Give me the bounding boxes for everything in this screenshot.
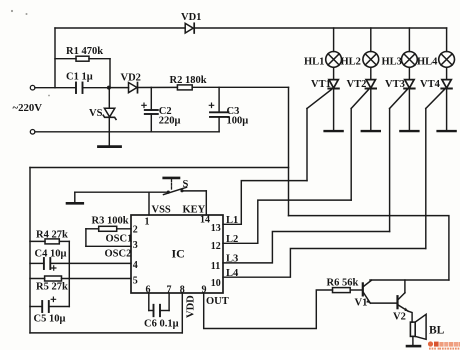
svg-text:HL3: HL3 — [382, 57, 402, 68]
svg-text:C5 10μ: C5 10μ — [34, 314, 66, 325]
label C3 plus — [209, 103, 213, 107]
svg-text:IC: IC — [172, 247, 185, 261]
svg-text:VD2: VD2 — [121, 73, 141, 84]
lamp HL1 — [326, 28, 342, 67]
switch S — [164, 178, 207, 195]
capacitor C2 — [145, 87, 158, 131]
lamp HL3 — [402, 28, 418, 67]
svg-text:R4 27k: R4 27k — [36, 230, 68, 241]
svg-text:S: S — [183, 179, 189, 190]
capacitor C4 — [30, 258, 131, 269]
speck dust — [11, 10, 50, 97]
svg-text:VS: VS — [89, 108, 103, 119]
svg-text:R3 100k: R3 100k — [92, 216, 129, 227]
svg-text:R6 56k: R6 56k — [327, 278, 359, 289]
wire L2 net — [223, 200, 351, 243]
wire collector rail — [370, 279, 449, 281]
diode VD1 — [185, 23, 194, 33]
capacitor C5 — [30, 301, 69, 312]
watermark red — [428, 341, 460, 349]
svg-text:VT4: VT4 — [420, 79, 441, 90]
svg-text:HL4: HL4 — [417, 57, 438, 68]
speaker BL — [407, 314, 426, 346]
svg-text:OUT: OUT — [206, 296, 229, 307]
svg-text:V2: V2 — [393, 312, 406, 323]
svg-text:C1 1μ: C1 1μ — [66, 72, 93, 83]
wire neutral bottom — [35, 131, 219, 133]
wire VSS riser pin1 — [148, 192, 150, 215]
svg-text:C4 10μ: C4 10μ — [35, 249, 67, 260]
wire VDD feed horizontal — [30, 167, 289, 169]
svg-text:14: 14 — [200, 215, 210, 226]
terminal upper input — [30, 85, 35, 90]
svg-text:V1: V1 — [355, 298, 368, 309]
svg-text:VT1: VT1 — [311, 79, 331, 90]
label C2 plus — [142, 103, 146, 107]
wire L4 net — [223, 249, 426, 278]
svg-text:6: 6 — [146, 285, 151, 296]
svg-text:11: 11 — [211, 261, 220, 272]
label C4 plus — [52, 266, 56, 270]
wire left border — [29, 168, 31, 333]
svg-text:OSC1: OSC1 — [106, 234, 133, 245]
wire gate riser VT3 — [389, 109, 391, 232]
wire pin8 VDD riser — [181, 293, 183, 333]
terminal VT1 cathode bar — [325, 130, 343, 132]
capacitor C6 — [149, 293, 169, 316]
svg-text:~220V: ~220V — [13, 102, 43, 114]
svg-text:R1 470k: R1 470k — [66, 46, 103, 57]
svg-text:1: 1 — [145, 217, 150, 228]
thyristor VT3 — [390, 67, 415, 130]
resistor R6 — [333, 288, 362, 293]
svg-text:R2 180k: R2 180k — [170, 75, 207, 86]
transistor V1 — [363, 280, 397, 303]
terminal VT2 cathode bar — [362, 130, 380, 132]
svg-text:12: 12 — [211, 241, 221, 252]
svg-text:L2: L2 — [226, 234, 238, 245]
zener VS — [99, 88, 121, 147]
label C5 plus — [51, 297, 55, 301]
terminal VT3 cathode bar — [400, 130, 418, 132]
wire gate riser VT1 — [306, 109, 308, 181]
wire VSS net — [75, 191, 167, 193]
wire amp supply — [289, 216, 449, 280]
svg-text:L4: L4 — [226, 268, 239, 279]
svg-text:4: 4 — [133, 260, 138, 271]
svg-text:10: 10 — [211, 278, 221, 289]
wire rail down right — [288, 87, 290, 215]
thyristor VT2 — [351, 67, 376, 130]
wire top bus — [55, 27, 447, 29]
thyristor VT1 — [307, 67, 339, 130]
transistor V2 — [398, 280, 413, 322]
diode VD2 — [109, 83, 177, 93]
svg-text:VD1: VD1 — [181, 12, 201, 23]
svg-text:OSC2: OSC2 — [105, 249, 132, 260]
svg-text:HL1: HL1 — [304, 57, 324, 68]
wire L3 net — [223, 232, 390, 263]
terminal lower input — [30, 130, 35, 135]
wire gate riser VT2 — [350, 109, 352, 201]
ground VSS stub — [67, 192, 83, 203]
resistor R4 — [30, 239, 69, 307]
wire L1 net — [223, 181, 307, 225]
svg-text:L1: L1 — [226, 215, 238, 226]
svg-text:HL2: HL2 — [341, 57, 361, 68]
terminal VT4 cathode bar — [438, 130, 456, 132]
thyristor VT4 — [426, 67, 452, 130]
svg-text:3: 3 — [133, 240, 138, 251]
wire OUT net — [204, 290, 333, 329]
wire upper input — [35, 87, 75, 89]
capacitor C1 — [76, 83, 109, 94]
lamp HL2 — [363, 28, 379, 67]
wire left riser — [54, 28, 56, 88]
svg-text:VT2: VT2 — [347, 79, 367, 90]
svg-text:VT3: VT3 — [385, 79, 405, 90]
wire bottom VDD — [30, 332, 182, 334]
lamp HL4 — [439, 28, 455, 67]
wire KEY riser pin14 — [205, 191, 207, 215]
svg-text:2: 2 — [133, 225, 138, 236]
resistor R1 — [55, 56, 110, 87]
svg-text:VSS: VSS — [152, 205, 171, 216]
svg-text:C6 0.1μ: C6 0.1μ — [144, 319, 179, 330]
resistor R2 — [177, 85, 288, 90]
svg-text:220μ: 220μ — [159, 116, 181, 127]
svg-text:BL: BL — [429, 325, 445, 337]
svg-text:L3: L3 — [226, 254, 238, 265]
capacitor C3 — [210, 87, 229, 132]
op-amp IC box — [131, 215, 223, 293]
svg-text:VDD: VDD — [186, 295, 197, 318]
svg-text:R5 27k: R5 27k — [36, 282, 68, 293]
svg-text:100μ: 100μ — [227, 116, 249, 127]
wire gate riser VT4 — [425, 109, 427, 249]
resistor R3 — [86, 226, 131, 246]
svg-text:13: 13 — [211, 223, 221, 234]
node C1/VD2/VS junction — [107, 86, 111, 90]
svg-text:5: 5 — [133, 276, 138, 287]
resistor R5 — [30, 276, 131, 281]
svg-text:KEY: KEY — [183, 205, 206, 216]
